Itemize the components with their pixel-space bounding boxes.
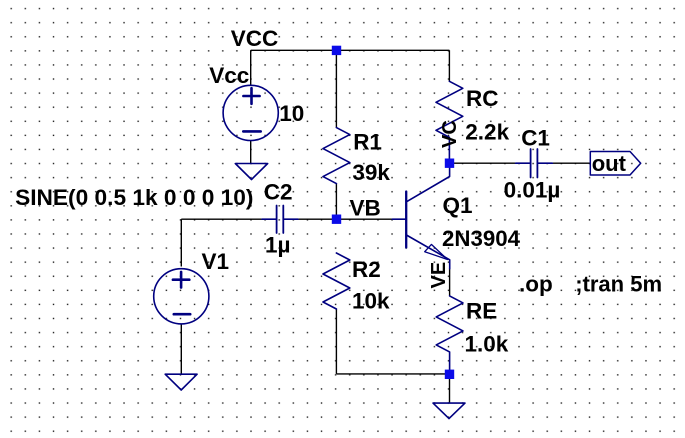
net label VE (rotated) xyxy=(428,262,450,289)
wire input vertical xyxy=(180,219,182,266)
wire V1 bottom xyxy=(180,324,182,374)
svg-text:VB: VB xyxy=(350,195,381,220)
output port out xyxy=(590,152,640,176)
wire C2 to VB node xyxy=(298,218,336,220)
svg-text:RE: RE xyxy=(466,299,497,324)
svg-text:39k: 39k xyxy=(352,160,390,185)
resistor RE xyxy=(436,296,463,374)
value 10 xyxy=(279,101,304,126)
label RE xyxy=(466,299,497,324)
svg-text:2N3904: 2N3904 xyxy=(442,226,520,251)
ground below V1 xyxy=(165,374,197,390)
wire emitter to RE xyxy=(449,269,451,296)
directive .op xyxy=(519,271,553,296)
svg-text:R1: R1 xyxy=(353,130,382,155)
svg-text:Q1: Q1 xyxy=(443,193,473,218)
capacitor C1 xyxy=(516,149,553,178)
svg-text:VE: VE xyxy=(428,262,450,289)
value 1µ xyxy=(265,232,290,257)
label Vcc (source name) xyxy=(209,63,249,88)
svg-text:1µ: 1µ xyxy=(265,232,290,257)
svg-text:C2: C2 xyxy=(264,179,293,204)
directive ;tran 5m xyxy=(575,271,662,296)
svg-text:V1: V1 xyxy=(202,249,230,274)
wire Vcc source bottom xyxy=(250,141,252,164)
value 2N3904 xyxy=(442,226,520,251)
svg-text:C1: C1 xyxy=(521,125,550,150)
value 0.01µ xyxy=(504,178,561,203)
port text out xyxy=(592,151,627,176)
resistor R1 xyxy=(323,128,350,184)
wire R1 bottom to VB xyxy=(335,184,337,220)
label V1 xyxy=(202,249,230,274)
wire input horizontal xyxy=(181,218,262,220)
junction VCC rail / R1 xyxy=(332,46,341,55)
wire bottom horizontal xyxy=(336,373,449,375)
wire RC top xyxy=(448,50,450,81)
ground below Vcc xyxy=(235,164,267,180)
voltage source V1 xyxy=(154,269,209,324)
net label VCC xyxy=(231,26,279,51)
svg-text:VC: VC xyxy=(439,120,461,148)
svg-text:SINE(0 0.5 1k 0 0 0 10): SINE(0 0.5 1k 0 0 0 10) xyxy=(15,185,253,210)
transistor Q1 xyxy=(392,163,449,269)
svg-text:out: out xyxy=(592,151,627,176)
svg-text:VCC: VCC xyxy=(231,26,279,51)
label Q1 xyxy=(443,193,473,218)
resistor R2 xyxy=(323,253,350,309)
value 10k xyxy=(352,289,390,314)
wire VCC rail xyxy=(251,49,450,51)
svg-text:10: 10 xyxy=(279,101,304,126)
net label VB xyxy=(350,195,381,220)
svg-text:.op: .op xyxy=(519,271,553,296)
wire VC to C1 xyxy=(450,162,516,164)
svg-text:10k: 10k xyxy=(352,289,390,314)
wire RE to ground xyxy=(449,374,451,403)
net label VC (rotated) xyxy=(439,120,461,148)
ground below RE xyxy=(433,403,465,419)
value 2.2k xyxy=(465,119,509,144)
wire VB to base xyxy=(336,218,392,220)
svg-text:0.01µ: 0.01µ xyxy=(504,178,561,203)
svg-text:R2: R2 xyxy=(352,257,381,282)
value SINE(0 0.5 1k 0 0 0 10) xyxy=(15,185,253,210)
voltage source Vcc xyxy=(223,85,278,140)
svg-text:Vcc: Vcc xyxy=(209,63,249,88)
label C1 xyxy=(521,125,550,150)
wire R2 bottom vertical xyxy=(335,309,337,374)
resistor RC xyxy=(436,81,463,163)
value 1.0k xyxy=(465,332,509,357)
svg-text:;tran 5m: ;tran 5m xyxy=(575,271,662,296)
label R2 xyxy=(352,257,381,282)
wire R1 top xyxy=(335,50,337,127)
svg-text:2.2k: 2.2k xyxy=(465,119,509,144)
junction VC node xyxy=(445,159,454,168)
junction emitter ground node xyxy=(445,370,454,379)
junction VB node xyxy=(332,215,341,224)
label C2 xyxy=(264,179,293,204)
label RC xyxy=(466,86,499,111)
svg-text:RC: RC xyxy=(466,86,499,111)
svg-text:1.0k: 1.0k xyxy=(465,332,509,357)
value 39k xyxy=(352,160,390,185)
wire C1 to out xyxy=(552,162,590,164)
capacitor C2 xyxy=(262,206,298,234)
label R1 xyxy=(353,130,382,155)
wire VCC source top xyxy=(250,50,252,85)
